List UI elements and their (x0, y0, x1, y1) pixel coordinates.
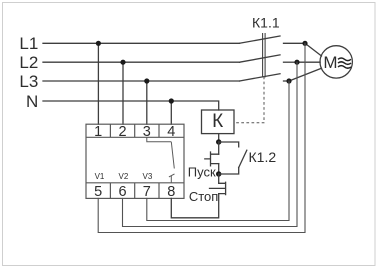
wire pole 2 to motor (297, 61, 320, 63)
relay internal contact blade (171, 142, 174, 169)
wire pole 1 output (284, 42, 306, 44)
svg-text:L3: L3 (19, 72, 38, 91)
node L1 junction (96, 41, 101, 46)
svg-text:Пуск: Пуск (188, 165, 216, 180)
wire pole 3 output (284, 80, 290, 82)
motor M circle (320, 46, 352, 78)
relay internal contact fixed lead (147, 137, 172, 142)
wire L1 to terminal 1 (97, 43, 99, 124)
motor AC triple tilde (338, 58, 351, 68)
svg-text:V3: V3 (143, 172, 153, 181)
wire terminal 5 sensing loop V1 (98, 43, 305, 232)
svg-text:M: M (323, 53, 337, 72)
coil K box (202, 110, 235, 134)
wire terminal 7 sensing loop V3 (147, 81, 289, 221)
svg-text:К1.2: К1.2 (249, 149, 277, 165)
contact K1.2 blade (239, 150, 247, 167)
node pole 3 output (286, 78, 291, 83)
wire N line to coil K (43, 101, 219, 110)
wire L3 to terminal 3 (146, 81, 148, 124)
contactor K1.1 pole 3 blade (240, 74, 281, 81)
svg-text:5: 5 (94, 184, 102, 200)
svg-text:Стоп: Стоп (189, 189, 218, 204)
wire node B to Стоп button (218, 174, 220, 183)
node pole 2 output (294, 60, 299, 65)
wire Стоп to terminal 8 (171, 194, 218, 218)
wire L2 to terminal 2 (122, 62, 124, 124)
node N junction (169, 98, 174, 103)
relay body (86, 124, 184, 198)
wire pole 2 output (284, 61, 298, 63)
node L2 junction (120, 60, 125, 65)
svg-text:N: N (26, 92, 38, 111)
wire K1.2 branch top (219, 142, 239, 147)
node A (below coil) (216, 139, 221, 144)
svg-text:К: К (212, 111, 223, 132)
relay internal contact tick (169, 174, 175, 177)
wire L1 line (43, 42, 240, 44)
push button Стоп SB2 (210, 182, 226, 194)
contactor K1.1 pole 2 blade (240, 55, 281, 62)
svg-text:V1: V1 (95, 172, 105, 181)
svg-text:V2: V2 (119, 172, 129, 181)
mechanical link dashed from K coil to K1.1 (234, 77, 264, 123)
contactor K1.1 link bar (263, 34, 266, 77)
wire pole 1 to motor (305, 43, 322, 56)
wire N to terminal 4 (170, 101, 172, 124)
svg-text:L1: L1 (19, 34, 38, 53)
push button Пуск SB1 (205, 152, 219, 166)
svg-text:L2: L2 (19, 53, 38, 72)
wire K1.2 branch bottom (219, 168, 239, 175)
wire pole 3 to motor (289, 68, 322, 81)
wire terminal 6 sensing loop V2 (123, 62, 298, 226)
node B (above Стоп) (216, 171, 221, 176)
relay internal contact lower stub (170, 176, 172, 183)
node L3 junction (144, 78, 149, 83)
svg-text:2: 2 (118, 124, 126, 140)
wire Пуск to node B (218, 164, 220, 174)
wire L3 line (43, 80, 240, 82)
wire node A to Пуск button (218, 142, 220, 154)
svg-text:К1.1: К1.1 (252, 15, 280, 31)
svg-text:4: 4 (167, 124, 175, 140)
wire coil K to node A (218, 134, 220, 142)
svg-text:7: 7 (143, 184, 151, 200)
wire L2 line (43, 61, 240, 63)
contactor K1.1 pole 1 blade (240, 36, 281, 43)
svg-text:6: 6 (118, 184, 126, 200)
node pole 1 output (302, 41, 307, 46)
svg-text:1: 1 (94, 124, 102, 140)
